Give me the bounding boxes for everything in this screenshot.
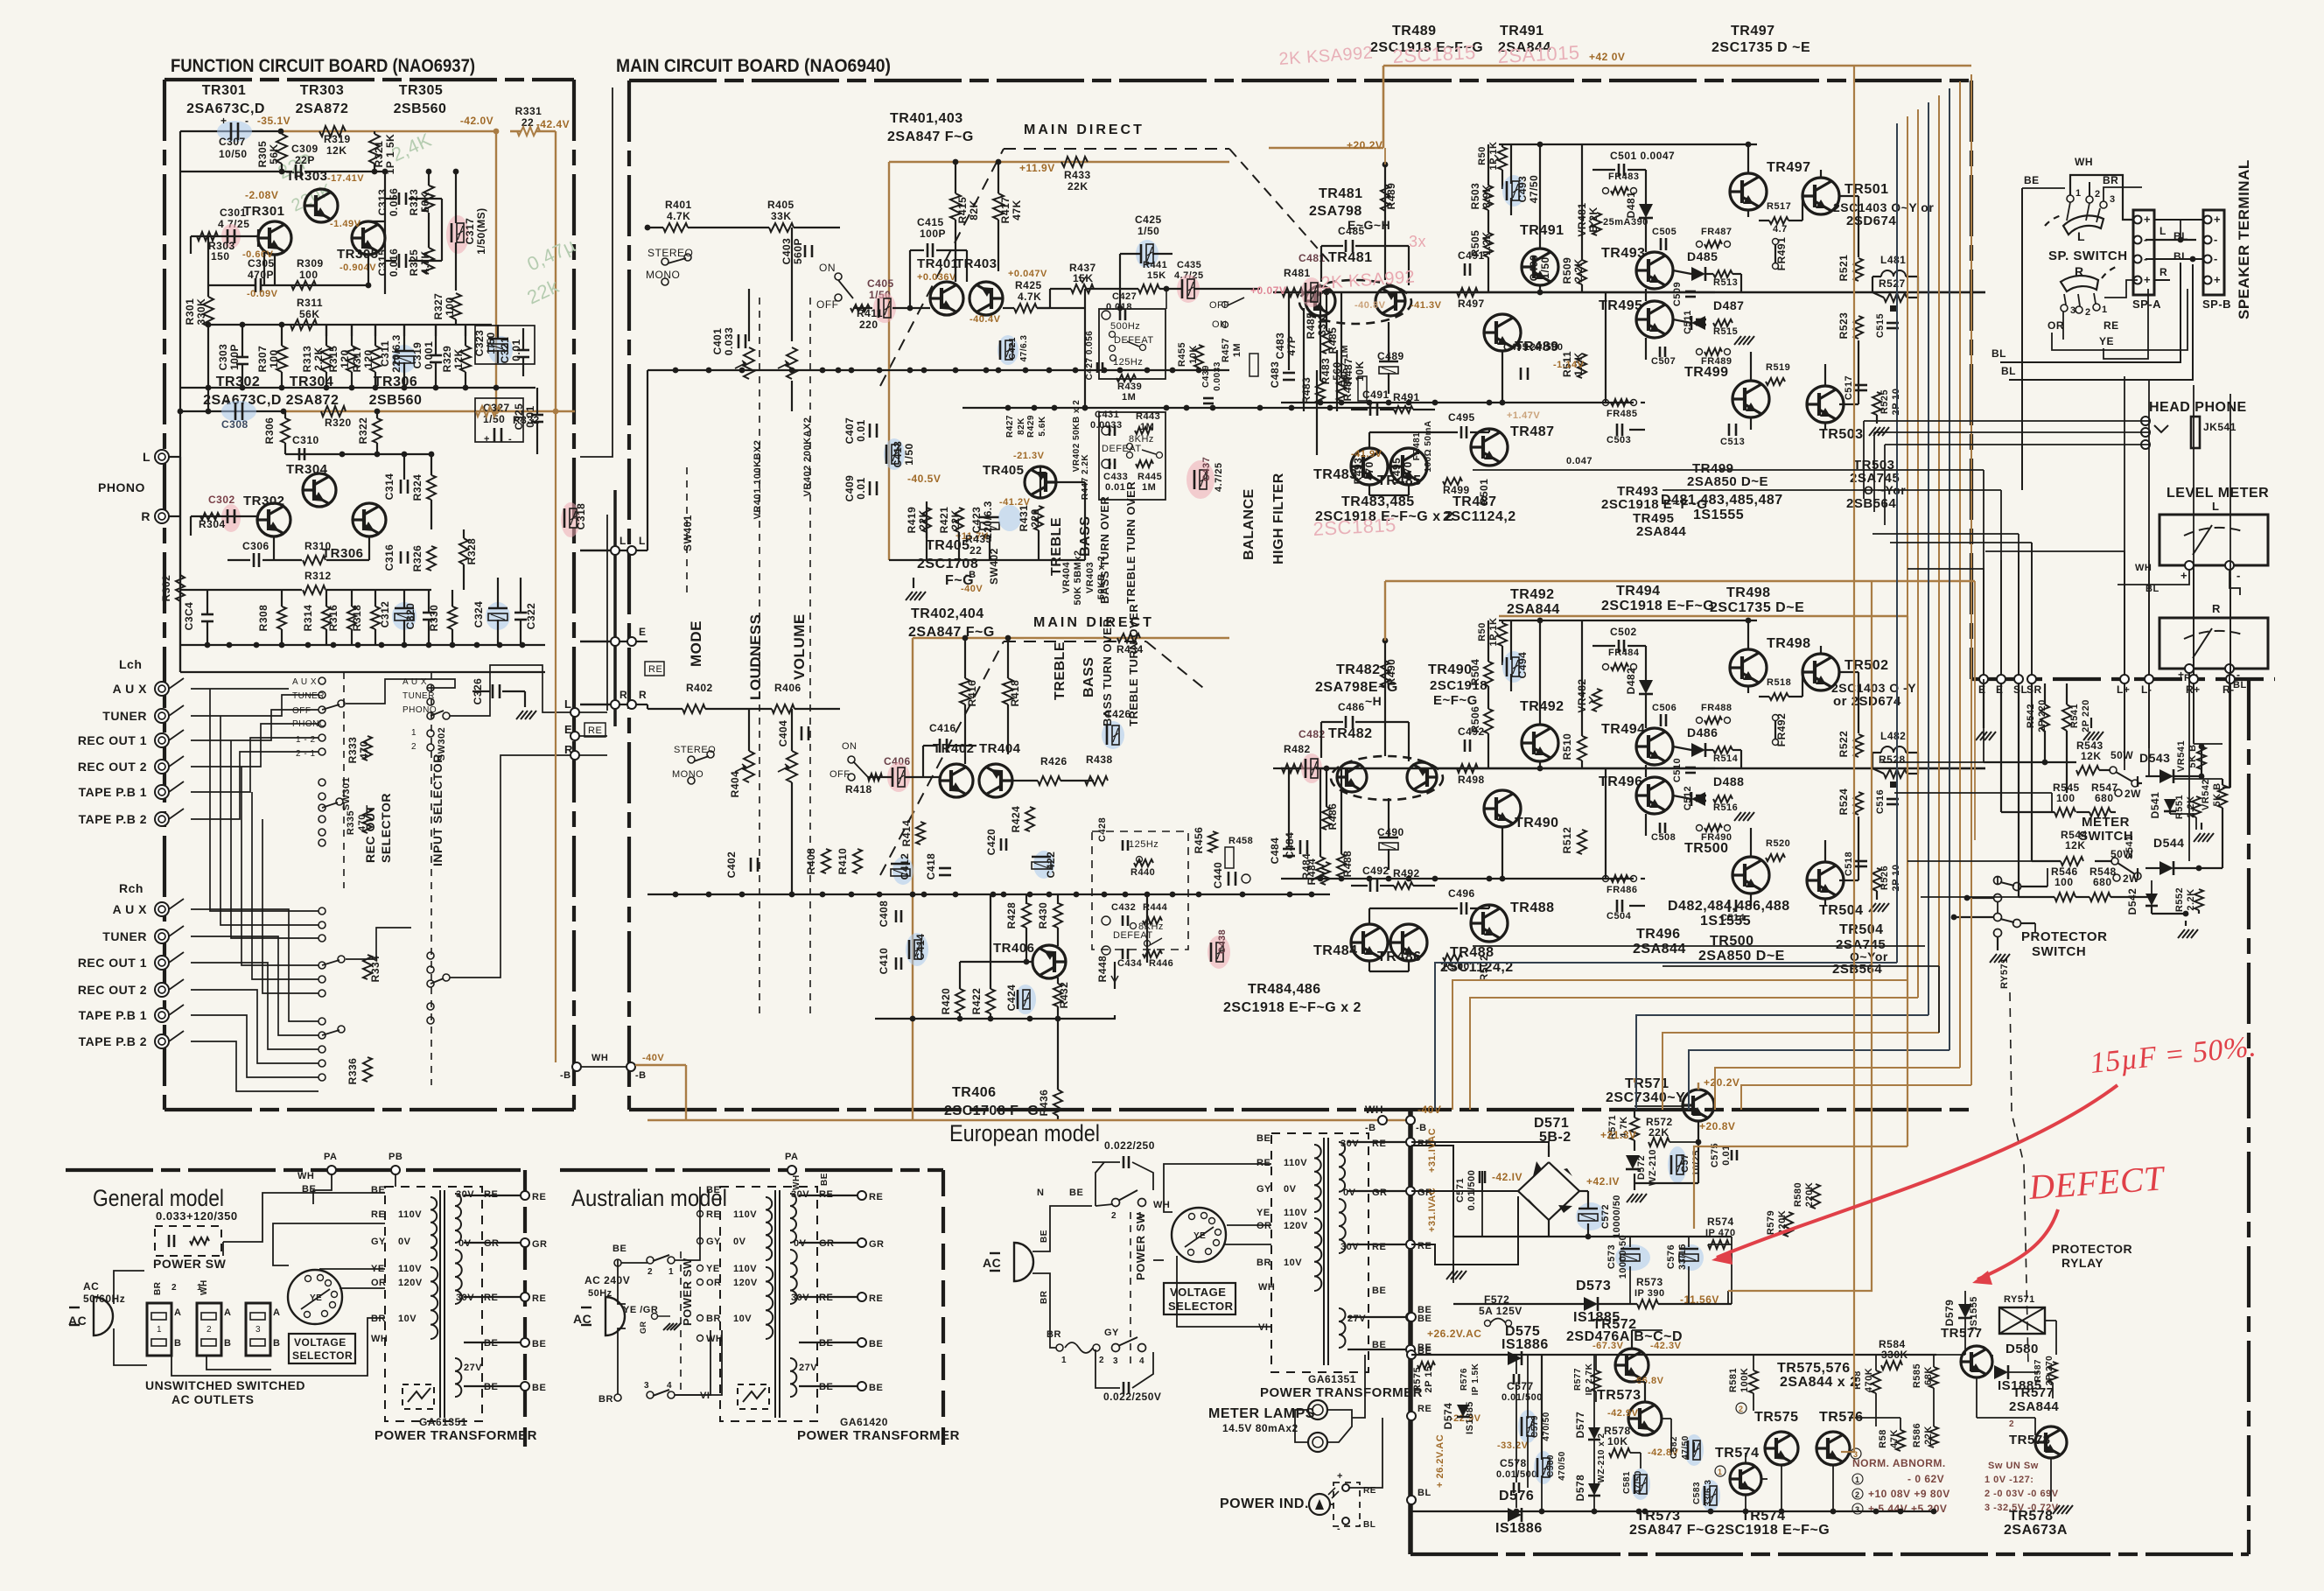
svg-text:R528: R528 bbox=[1879, 753, 1906, 766]
svg-text:TR577: TR577 bbox=[1941, 1326, 1983, 1341]
svg-text:R448: R448 bbox=[1096, 956, 1109, 983]
svg-text:TR497: TR497 bbox=[1767, 160, 1811, 175]
shield cable bundle between boards bbox=[613, 490, 617, 726]
wire long links top bbox=[580, 88, 612, 457]
diode D486/D485 bbox=[1691, 267, 1705, 281]
svg-text:2SB564: 2SB564 bbox=[1832, 962, 1882, 977]
capacitor C312 electrolytic bbox=[392, 602, 416, 630]
transistor TR500/TR499 bbox=[1732, 857, 1769, 894]
svg-text:TR303: TR303 bbox=[286, 169, 328, 184]
svg-text:0.01/500: 0.01/500 bbox=[1501, 1392, 1543, 1403]
svg-text:2SC1815: 2SC1815 bbox=[1392, 41, 1476, 67]
wire bus 443 bbox=[180, 387, 535, 389]
svg-text:-1.49V: -1.49V bbox=[330, 219, 361, 229]
svg-text:C503: C503 bbox=[1606, 435, 1631, 445]
svg-text:R416: R416 bbox=[966, 680, 978, 707]
svg-text:R525: R525 bbox=[1879, 389, 1890, 414]
svg-text:C408: C408 bbox=[878, 901, 890, 928]
svg-text:TR482: TR482 bbox=[1328, 726, 1373, 741]
svg-text:AC: AC bbox=[68, 1314, 87, 1328]
wire TR303 collector rail bbox=[180, 171, 292, 172]
svg-text:560P: 560P bbox=[792, 238, 804, 264]
svg-text:10V: 10V bbox=[398, 1314, 416, 1324]
capacitor C315 bbox=[398, 254, 401, 268]
potentiometer VR402 lower bbox=[787, 751, 797, 782]
svg-text:C501 0.0047: C501 0.0047 bbox=[1610, 150, 1675, 162]
svg-text:BASS TURN OVER: BASS TURN OVER bbox=[1101, 619, 1114, 726]
svg-text:C508: C508 bbox=[1651, 832, 1676, 843]
terminal strip L+ L- R+ R- bbox=[2120, 675, 2129, 683]
resistor R506/R505 bbox=[1484, 233, 1493, 257]
svg-text:+: + bbox=[484, 434, 490, 445]
svg-text:C418: C418 bbox=[925, 853, 937, 880]
svg-text:+: + bbox=[2214, 213, 2221, 226]
svg-text:2SC1918 E~F~G: 2SC1918 E~F~G bbox=[1601, 497, 1708, 512]
general model border right bbox=[523, 1170, 527, 1447]
svg-text:GR: GR bbox=[869, 1239, 885, 1250]
svg-text:2SC1124,2: 2SC1124,2 bbox=[1443, 509, 1516, 524]
transistor dual input pair oval TR482 bbox=[1331, 756, 1443, 800]
transistor TR406 bbox=[1032, 945, 1066, 978]
headphone jack JK541 bbox=[2141, 417, 2150, 425]
pot VR482/VR481 bbox=[1592, 689, 1601, 711]
svg-text:AC: AC bbox=[573, 1312, 591, 1326]
svg-text:D574: D574 bbox=[1442, 1403, 1454, 1430]
terminal GR general bbox=[521, 1238, 529, 1247]
svg-text:FUNCTION CIRCUIT BOARD (NAO693: FUNCTION CIRCUIT BOARD (NAO6937) bbox=[171, 56, 475, 76]
svg-text:D544: D544 bbox=[2153, 836, 2184, 850]
svg-text:2SB560: 2SB560 bbox=[369, 393, 423, 408]
terminal strip SP-A bbox=[2133, 210, 2154, 295]
svg-text:2 -0 03V -0 69V: 2 -0 03V -0 69V bbox=[1984, 1489, 2059, 1499]
wire protector feeds bbox=[1967, 897, 1994, 899]
svg-text:R522: R522 bbox=[1837, 731, 1850, 758]
svg-text:56K: 56K bbox=[299, 308, 320, 320]
svg-text:AC 240V: AC 240V bbox=[584, 1274, 630, 1286]
svg-text:-1.14V: -1.14V bbox=[1553, 360, 1585, 370]
svg-text:RE: RE bbox=[532, 1293, 546, 1304]
svg-text:47/50: 47/50 bbox=[1528, 175, 1540, 204]
svg-text:R418: R418 bbox=[845, 783, 872, 795]
svg-text:R433: R433 bbox=[1064, 169, 1091, 181]
svg-text:R576: R576 bbox=[1459, 1368, 1469, 1391]
svg-text:R498: R498 bbox=[1458, 774, 1485, 786]
svg-text:PROTECTOR: PROTECTOR bbox=[2052, 1242, 2132, 1256]
svg-text:POWER SW: POWER SW bbox=[153, 1257, 227, 1271]
svg-text:1 0V -127:: 1 0V -127: bbox=[1984, 1475, 2033, 1485]
svg-text:0V: 0V bbox=[1284, 1184, 1297, 1195]
svg-text:R458: R458 bbox=[1228, 836, 1253, 846]
svg-text:470/50: 470/50 bbox=[1542, 1412, 1551, 1441]
resistor R422 bbox=[986, 989, 995, 1013]
svg-text:R323: R323 bbox=[408, 189, 420, 216]
svg-text:2.2K: 2.2K bbox=[312, 347, 325, 370]
wire brown bottom rail bbox=[647, 1119, 1410, 1122]
svg-text:BE: BE bbox=[1372, 1286, 1386, 1296]
capacitor C313 bbox=[398, 193, 401, 205]
svg-text:SW401: SW401 bbox=[682, 515, 694, 551]
transistor TR578 bbox=[2035, 1426, 2067, 1458]
resistor R428 bbox=[1022, 903, 1031, 928]
diode D486/D485 bbox=[1691, 743, 1705, 757]
terminal BE top bbox=[1407, 1313, 1416, 1321]
resistor R512/R511 bbox=[1578, 354, 1586, 378]
svg-text:VR403: VR403 bbox=[1085, 562, 1095, 593]
svg-text:C305: C305 bbox=[248, 257, 275, 270]
wire misc columns bbox=[1319, 768, 1321, 857]
dashed main direct lower bbox=[880, 641, 1004, 875]
svg-text:R315: R315 bbox=[327, 346, 339, 373]
svg-text:GA61420: GA61420 bbox=[840, 1416, 888, 1428]
svg-text:1: 1 bbox=[157, 1325, 162, 1335]
resistor R417 bbox=[993, 193, 1004, 220]
diode D482/D481 bbox=[1639, 680, 1653, 694]
resistor R506/R505 bbox=[1484, 709, 1493, 733]
wire function to main connect bbox=[580, 550, 627, 551]
svg-text:R420: R420 bbox=[940, 988, 952, 1015]
svg-text:GR: GR bbox=[532, 1239, 548, 1250]
svg-text:C576: C576 bbox=[1666, 1244, 1676, 1269]
svg-text:R526: R526 bbox=[1879, 866, 1890, 890]
capacitor C304 bbox=[201, 613, 213, 616]
svg-text:100: 100 bbox=[444, 297, 456, 316]
svg-text:R410: R410 bbox=[836, 848, 849, 875]
wire headphone leads bbox=[1864, 420, 2149, 422]
svg-text:REC OUT 1: REC OUT 1 bbox=[78, 733, 147, 747]
jack Rch TUNER bbox=[155, 929, 169, 943]
svg-text:UNSWITCHED SWITCHED: UNSWITCHED SWITCHED bbox=[145, 1378, 305, 1392]
svg-text:R436: R436 bbox=[1038, 1090, 1050, 1117]
jack Lch TAPE P.B 1 bbox=[155, 785, 169, 799]
svg-text:R510: R510 bbox=[1561, 733, 1573, 760]
svg-text:1: 1 bbox=[1855, 1475, 1860, 1484]
svg-text:0.022/250: 0.022/250 bbox=[1104, 1139, 1155, 1152]
svg-text:SW301: SW301 bbox=[341, 777, 352, 811]
resistor R316 bbox=[347, 606, 356, 629]
wire to TR401 bbox=[892, 307, 930, 309]
svg-text:0V: 0V bbox=[1343, 1188, 1356, 1198]
resistor R306 bbox=[281, 418, 290, 443]
svg-text:-21.3V: -21.3V bbox=[1013, 451, 1045, 461]
capacitor C319 bbox=[430, 354, 442, 357]
svg-text:3.9K: 3.9K bbox=[1480, 184, 1493, 207]
resistor R512/R511 bbox=[1578, 830, 1586, 854]
svg-text:C416: C416 bbox=[929, 722, 956, 734]
switch dashed line SW302 bbox=[430, 672, 432, 1085]
svg-text:R405: R405 bbox=[767, 199, 794, 211]
diode D572 zener bbox=[1626, 1155, 1640, 1169]
wire main bus 1413 bbox=[1453, 1236, 1732, 1237]
svg-text:RE: RE bbox=[2103, 319, 2119, 332]
svg-text:R427: R427 bbox=[1005, 415, 1015, 438]
svg-text:0.01: 0.01 bbox=[855, 477, 867, 499]
wire bias network bbox=[1645, 646, 1647, 680]
svg-text:TR301: TR301 bbox=[243, 204, 285, 219]
svg-text:C420: C420 bbox=[985, 829, 997, 856]
svg-text:C518: C518 bbox=[1844, 852, 1854, 876]
wire to gnd right bbox=[1876, 891, 1878, 900]
wire balance network bbox=[1303, 308, 1305, 411]
svg-text:2: 2 bbox=[1111, 1211, 1116, 1221]
svg-text:C517: C517 bbox=[1844, 375, 1854, 400]
svg-text:0.022/250V: 0.022/250V bbox=[1103, 1391, 1161, 1403]
wire brown vertical x635 bbox=[555, 131, 556, 411]
svg-text:TR489: TR489 bbox=[1392, 24, 1437, 39]
svg-text:RE: RE bbox=[1417, 1404, 1431, 1414]
resistor R490 vert bbox=[1381, 661, 1389, 687]
svg-text:R515: R515 bbox=[1713, 326, 1738, 337]
svg-text:2SA673A: 2SA673A bbox=[2004, 1523, 2068, 1538]
svg-text:TR487: TR487 bbox=[1510, 424, 1555, 439]
svg-text:C321: C321 bbox=[499, 337, 511, 364]
transistor third stage TR490/TR489 bbox=[1484, 314, 1521, 351]
resistor R510/R509 bbox=[1578, 260, 1586, 284]
switch european top bbox=[1112, 1199, 1120, 1207]
svg-text:C313: C313 bbox=[376, 189, 388, 216]
svg-text:VR541: VR541 bbox=[2176, 740, 2187, 772]
jack Rch TAPE P.B 1 bbox=[155, 1008, 169, 1022]
svg-text:+: + bbox=[2144, 273, 2151, 286]
wire selector routing bbox=[179, 457, 181, 672]
capacitor C579 bbox=[1518, 1410, 1537, 1443]
svg-text:TR575: TR575 bbox=[1754, 1410, 1799, 1425]
svg-text:0.0033: 0.0033 bbox=[1090, 420, 1123, 431]
svg-text:C3C4: C3C4 bbox=[183, 602, 195, 631]
svg-text:TR498: TR498 bbox=[1726, 585, 1771, 600]
svg-text:C572: C572 bbox=[1600, 1204, 1611, 1229]
transistor TR574 bbox=[1730, 1463, 1761, 1495]
box around C323 C321 bbox=[475, 326, 535, 364]
svg-text:C425: C425 bbox=[1135, 214, 1162, 226]
svg-text:C405: C405 bbox=[867, 277, 894, 290]
svg-text:R432: R432 bbox=[1058, 982, 1070, 1009]
svg-text:R439: R439 bbox=[1117, 382, 1142, 392]
svg-text:R50: R50 bbox=[1477, 146, 1487, 165]
svg-text:TR406: TR406 bbox=[993, 941, 1035, 956]
svg-text:BR: BR bbox=[1046, 1329, 1061, 1340]
wire brown protection feeds 2 bbox=[1634, 1078, 1635, 1083]
svg-text:WH: WH bbox=[2075, 156, 2093, 168]
svg-text:R319: R319 bbox=[324, 133, 351, 145]
svg-text:GY: GY bbox=[1104, 1328, 1119, 1338]
svg-text:LEVEL METER: LEVEL METER bbox=[2166, 486, 2269, 501]
power block bottom border bbox=[1410, 1552, 2249, 1556]
svg-text:C410: C410 bbox=[878, 948, 890, 975]
svg-text:TR575,576: TR575,576 bbox=[1777, 1361, 1851, 1376]
svg-text:-42.3V: -42.3V bbox=[1650, 1341, 1682, 1351]
svg-text:WZ-210: WZ-210 bbox=[1648, 1149, 1658, 1186]
resistor R336 bbox=[363, 1057, 372, 1082]
capacitor C514/C513 bbox=[1728, 424, 1731, 436]
svg-text:2SA850 D~E: 2SA850 D~E bbox=[1687, 474, 1768, 489]
svg-text:+0.047V: +0.047V bbox=[1008, 269, 1047, 279]
terminal BE bot bbox=[1407, 1350, 1416, 1359]
svg-text:50W: 50W bbox=[2110, 749, 2133, 761]
svg-text:220: 220 bbox=[859, 319, 878, 331]
wire meter switch long feeds bbox=[1881, 761, 2076, 763]
transformer secondary coils european bbox=[1339, 1142, 1345, 1192]
resistor R526/R525 bbox=[1872, 868, 1881, 891]
svg-text:R408: R408 bbox=[805, 848, 817, 875]
transistor TR571 bbox=[1683, 1090, 1714, 1121]
svg-text:-: - bbox=[2214, 252, 2218, 265]
svg-text:120V: 120V bbox=[1284, 1221, 1308, 1231]
svg-text:-B: -B bbox=[1365, 1123, 1376, 1133]
svg-text:R320: R320 bbox=[325, 417, 352, 429]
svg-text:TR501: TR501 bbox=[1844, 182, 1889, 197]
svg-text:1P 1K: 1P 1K bbox=[1488, 618, 1499, 647]
wire mid rail under labels bbox=[1499, 620, 1757, 621]
svg-text:2.2K: 2.2K bbox=[1572, 258, 1585, 282]
wire sp switch routing bbox=[2070, 175, 2133, 220]
svg-text:R325: R325 bbox=[408, 249, 420, 277]
svg-text:General model: General model bbox=[93, 1185, 224, 1211]
svg-text:12K: 12K bbox=[2065, 839, 2086, 852]
svg-text:L: L bbox=[639, 535, 646, 547]
svg-text:RE: RE bbox=[869, 1192, 883, 1202]
capacitor C302 bbox=[221, 504, 241, 532]
terminal L out bbox=[570, 708, 579, 717]
capacitor C316 bbox=[400, 551, 402, 564]
svg-text:BR: BR bbox=[1256, 1258, 1271, 1268]
svg-text:L-: L- bbox=[2141, 683, 2152, 696]
svg-text:R401: R401 bbox=[665, 199, 692, 211]
svg-text:R487: R487 bbox=[1342, 358, 1354, 385]
capacitor C324 electrolytic bbox=[486, 602, 510, 630]
dashed switch line european bbox=[1130, 1212, 1131, 1365]
svg-text:C492: C492 bbox=[1362, 865, 1389, 877]
svg-text:4.7: 4.7 bbox=[1773, 224, 1788, 235]
svg-text:R301: R301 bbox=[184, 298, 196, 326]
svg-text:MODE: MODE bbox=[688, 620, 704, 667]
wire OR YE routes bbox=[2052, 289, 2187, 350]
svg-text:ON: ON bbox=[842, 741, 857, 752]
svg-text:POWER SW: POWER SW bbox=[681, 1258, 694, 1326]
svg-text:-40V: -40V bbox=[1417, 1104, 1441, 1116]
svg-text:330K: 330K bbox=[195, 298, 207, 326]
svg-text:C499: C499 bbox=[1528, 255, 1540, 282]
terminal strip main E E SL SR bbox=[1979, 675, 1988, 683]
svg-text:ON: ON bbox=[1212, 319, 1228, 330]
transistor TR401 bbox=[930, 282, 963, 315]
svg-text:TR483,485: TR483,485 bbox=[1341, 494, 1415, 509]
svg-text:BE: BE bbox=[869, 1339, 883, 1349]
svg-text:1.2K: 1.2K bbox=[1480, 231, 1493, 255]
svg-text:R575: R575 bbox=[1412, 1367, 1423, 1391]
wire bus bottom 1727 bbox=[1411, 1510, 1936, 1512]
svg-text:R489: R489 bbox=[1385, 183, 1397, 210]
svg-text:JK541: JK541 bbox=[2203, 421, 2236, 433]
svg-text:MAIN DIRECT: MAIN DIRECT bbox=[1024, 123, 1144, 137]
svg-text:14.5V 80mAx2: 14.5V 80mAx2 bbox=[1222, 1422, 1298, 1434]
transistor TR496/TR495 bbox=[1636, 777, 1673, 814]
svg-text:R328: R328 bbox=[465, 538, 478, 565]
svg-text:56K: 56K bbox=[419, 192, 431, 213]
svg-text:12P/500: 12P/500 bbox=[1524, 342, 1563, 353]
svg-text:-B: -B bbox=[560, 1070, 571, 1081]
resistor R541 bbox=[2062, 704, 2071, 731]
wire top rail brown rail bbox=[281, 130, 496, 133]
svg-text:-B: -B bbox=[965, 570, 976, 580]
resistor R303 bbox=[197, 232, 218, 241]
switch lower matrix contacts group1 bbox=[318, 908, 325, 915]
svg-text:RE: RE bbox=[1417, 1241, 1431, 1251]
svg-text:POWER IND.: POWER IND. bbox=[1220, 1496, 1309, 1511]
svg-text:L: L bbox=[143, 450, 150, 464]
wire R- feed below strip bbox=[2229, 683, 2231, 788]
wire main input E bbox=[636, 641, 647, 642]
svg-text:500Hz: 500Hz bbox=[1110, 321, 1140, 332]
jack Lch TAPE P.B 2 bbox=[155, 812, 169, 826]
resistor R504/R503 bbox=[1484, 662, 1493, 686]
svg-text:European model: European model bbox=[949, 1120, 1100, 1146]
svg-text:C404: C404 bbox=[777, 720, 789, 747]
svg-text:1: 1 bbox=[1061, 1356, 1067, 1365]
svg-text:C440: C440 bbox=[1212, 862, 1224, 889]
svg-text:RE: RE bbox=[371, 1209, 385, 1220]
svg-text:B: B bbox=[224, 1338, 231, 1349]
svg-text:R485: R485 bbox=[1326, 327, 1339, 354]
svg-text:R505: R505 bbox=[1469, 230, 1481, 257]
svg-text:C312: C312 bbox=[379, 601, 391, 628]
function circuit board border bbox=[164, 78, 574, 81]
svg-text:R330: R330 bbox=[428, 605, 440, 632]
svg-text:10/50: 10/50 bbox=[219, 148, 248, 160]
svg-text:E: E bbox=[564, 723, 572, 736]
svg-text:AC OUTLETS: AC OUTLETS bbox=[171, 1392, 254, 1406]
svg-text:C310: C310 bbox=[292, 434, 319, 446]
wire output bus bbox=[1281, 767, 1985, 769]
svg-text:TR496: TR496 bbox=[1636, 927, 1681, 942]
svg-text:10K: 10K bbox=[1354, 361, 1366, 382]
svg-text:C437: C437 bbox=[1201, 457, 1212, 481]
capacitor C57 10/25 bbox=[1668, 1146, 1687, 1183]
svg-text:27V: 27V bbox=[464, 1363, 482, 1373]
svg-text:2: 2 bbox=[171, 1283, 177, 1293]
wire +42V brown rail bbox=[1383, 65, 1971, 67]
svg-text:+: + bbox=[220, 115, 227, 127]
tone switch box upper treble turnover bbox=[1099, 412, 1165, 500]
switch 2W upper bbox=[2115, 789, 2122, 796]
svg-text:+31.IVAC: +31.IVAC bbox=[1427, 1188, 1438, 1232]
resistor R307 bbox=[276, 346, 287, 372]
ac outlet 1 bbox=[147, 1303, 171, 1356]
svg-text:2: 2 bbox=[1855, 1490, 1860, 1499]
wire RE shield boxes bbox=[645, 662, 664, 676]
svg-text:4.7K: 4.7K bbox=[667, 210, 690, 222]
terminals australian bbox=[857, 1191, 866, 1200]
svg-text:TR404: TR404 bbox=[979, 741, 1021, 756]
svg-text:R424: R424 bbox=[1010, 806, 1022, 833]
capacitor C326 bbox=[492, 684, 494, 698]
svg-text:-: - bbox=[2214, 233, 2218, 246]
svg-text:C484: C484 bbox=[1269, 838, 1281, 865]
svg-text:47K: 47K bbox=[1889, 1429, 1900, 1448]
svg-text:2SC1918 E~F~G: 2SC1918 E~F~G bbox=[1717, 1523, 1830, 1538]
terminal L cable bbox=[611, 546, 619, 555]
svg-text:0.047: 0.047 bbox=[1566, 456, 1592, 466]
capacitor C306 bbox=[253, 553, 255, 567]
svg-text:VOLTAGE: VOLTAGE bbox=[1170, 1286, 1226, 1299]
svg-text:2SB560: 2SB560 bbox=[394, 102, 447, 116]
transformer box european bbox=[1271, 1133, 1368, 1372]
wire meter R leads down bbox=[2188, 673, 2190, 861]
resistor R542 bbox=[2040, 704, 2049, 731]
svg-text:R435: R435 bbox=[965, 533, 992, 545]
svg-text:2SA847 F~G: 2SA847 F~G bbox=[887, 130, 974, 144]
svg-text:-B: -B bbox=[1416, 1123, 1427, 1133]
svg-text:TR482: TR482 bbox=[1336, 662, 1381, 677]
